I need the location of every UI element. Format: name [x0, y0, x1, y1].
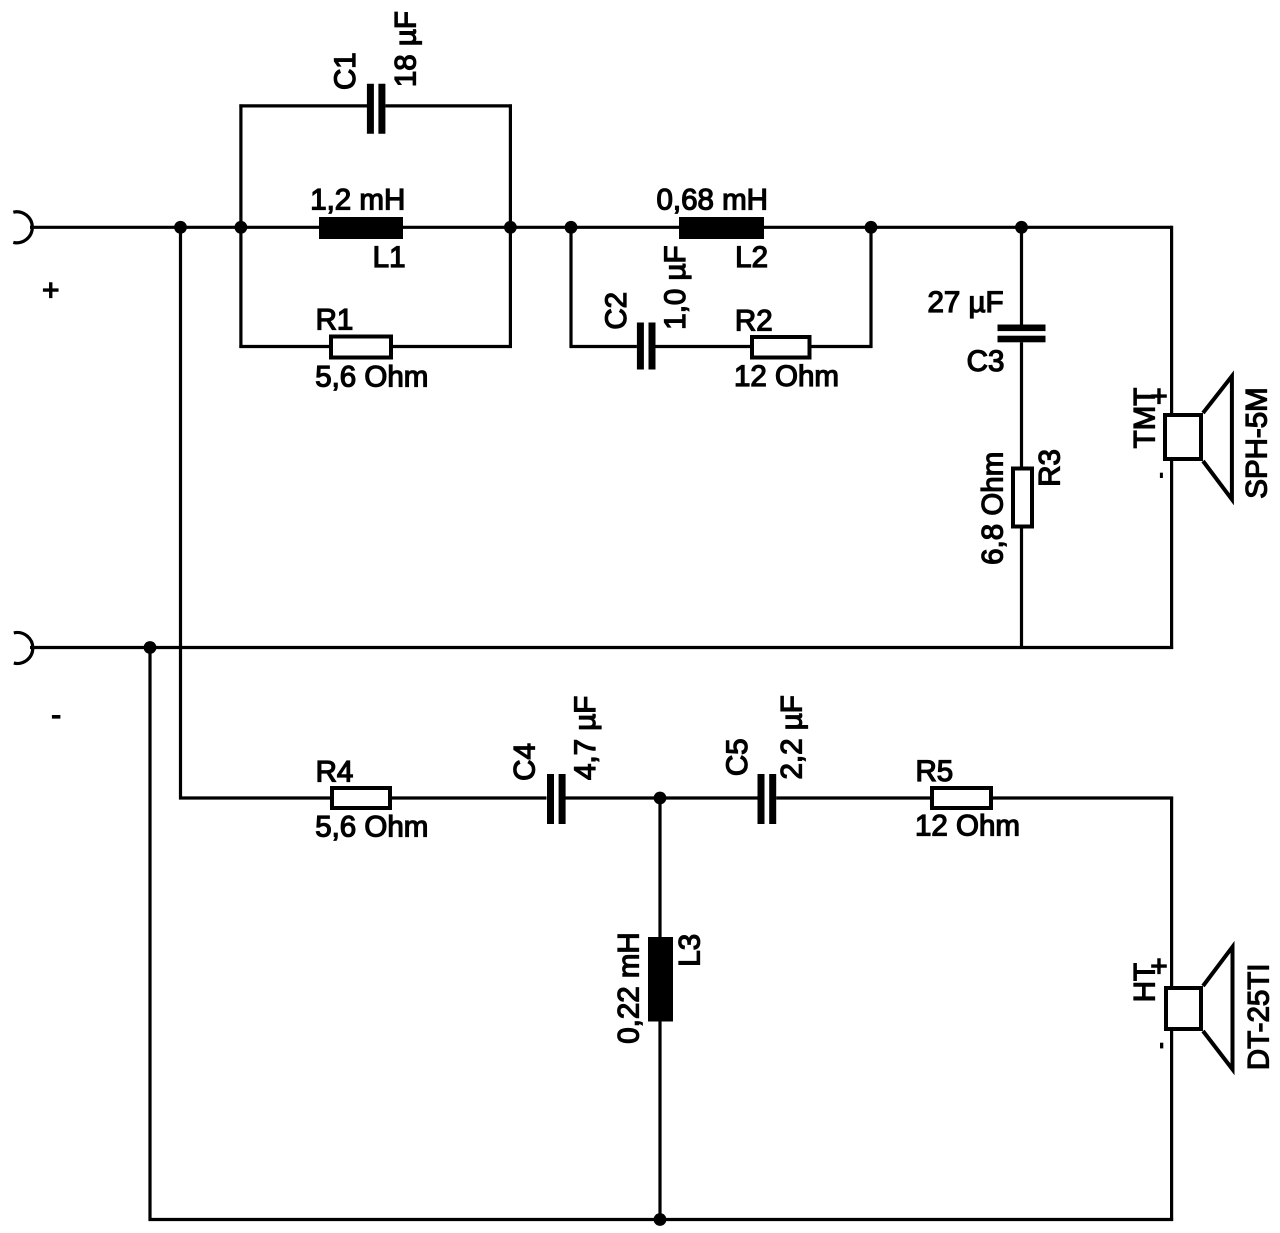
input terminal -	[14, 632, 33, 663]
svg-text:1,2 mH: 1,2 mH	[310, 184, 405, 217]
wire HT speaker right vertical upper	[1170, 797, 1173, 989]
resistor R5	[932, 788, 991, 808]
resistor R1	[331, 337, 391, 358]
svg-text:1,0 µF: 1,0 µF	[659, 245, 692, 329]
capacitor C5	[758, 774, 777, 824]
capacitor C4	[547, 774, 566, 824]
inductor L3	[648, 937, 673, 1022]
svg-text:C3: C3	[967, 345, 1005, 378]
junction node C1 group right	[504, 221, 517, 234]
wire C1 group top left segment	[239, 104, 367, 107]
wire C1 group left vertical	[239, 104, 242, 348]
label HT minus	[1160, 1043, 1163, 1049]
junction node C3 branch top	[1015, 221, 1028, 234]
svg-text:-: -	[51, 698, 61, 731]
capacitor C1	[367, 84, 386, 134]
wire TMT speaker right vertical lower	[1170, 459, 1173, 649]
svg-text:C2: C2	[600, 292, 633, 330]
wire bottom rail	[149, 1218, 1174, 1221]
junction node minus rail	[144, 641, 157, 654]
svg-text:0,68 mH: 0,68 mH	[657, 184, 769, 217]
wire C3 branch lower (R3 branch)	[1020, 342, 1023, 647]
junction node C1 group left	[235, 221, 248, 234]
junction node C2 group left	[565, 221, 578, 234]
svg-text:6,8 Ohm: 6,8 Ohm	[976, 452, 1009, 565]
resistor R3	[1013, 469, 1032, 527]
svg-text:R5: R5	[916, 755, 954, 788]
svg-text:18 µF: 18 µF	[390, 11, 423, 87]
wire tweeter chain C5 to corner	[776, 796, 1173, 799]
wire minus rail	[30, 646, 1173, 649]
svg-text:R4: R4	[316, 755, 354, 788]
svg-text:+: +	[1150, 950, 1167, 983]
capacitor C2	[637, 323, 656, 370]
input terminal +	[13, 212, 32, 243]
junction node bottom rail / L3	[654, 1213, 667, 1226]
wire C2 group left vertical	[569, 227, 572, 348]
svg-text:DT-25TI: DT-25TI	[1242, 964, 1275, 1071]
svg-text:R2: R2	[735, 304, 773, 337]
speaker HT DT-25TI	[1166, 947, 1233, 1070]
wire C2 group bottom left segment	[570, 345, 637, 348]
wire C3 branch upper	[1020, 227, 1023, 324]
svg-text:L2: L2	[735, 241, 768, 274]
svg-text:+: +	[42, 274, 59, 307]
wire C1 group bottom (R1 branch)	[239, 345, 512, 348]
svg-text:R1: R1	[316, 304, 354, 337]
resistor R2	[752, 337, 810, 358]
svg-text:L3: L3	[674, 934, 707, 967]
svg-text:4,7 µF: 4,7 µF	[569, 696, 602, 780]
wire HT speaker right vertical lower	[1170, 1029, 1173, 1221]
resistor R4	[332, 788, 390, 808]
svg-text:R3: R3	[1034, 449, 1067, 487]
wire tweeter chain horizontal	[179, 796, 547, 799]
svg-text:L1: L1	[373, 241, 406, 274]
svg-text:12 Ohm: 12 Ohm	[915, 810, 1020, 843]
wire minus rail left drop	[148, 646, 151, 1221]
junction node C2 group right	[865, 221, 878, 234]
svg-text:12 Ohm: 12 Ohm	[734, 360, 839, 393]
inductor L1	[319, 217, 403, 239]
wire C2 group right vertical	[869, 227, 872, 348]
junction node tweeter chain / L3	[654, 792, 667, 805]
svg-text:0,22 mH: 0,22 mH	[613, 932, 646, 1044]
svg-text:5,6 Ohm: 5,6 Ohm	[315, 361, 428, 394]
label TMT minus	[1160, 473, 1163, 478]
wire tweeter chain between C4 and C5	[566, 796, 758, 799]
speaker TMT SPH-5M	[1165, 376, 1232, 499]
svg-text:27 µF: 27 µF	[927, 286, 1003, 319]
wire C1 group top right segment	[385, 104, 512, 107]
svg-text:C5: C5	[721, 738, 754, 776]
svg-text:5,6 Ohm: 5,6 Ohm	[315, 810, 428, 843]
svg-text:C4: C4	[508, 743, 541, 781]
wire top main (+ rail)	[30, 226, 1172, 229]
svg-text:C1: C1	[329, 52, 362, 90]
wire plus tap vertical drop	[179, 227, 182, 799]
svg-text:2,2 µF: 2,2 µF	[776, 695, 809, 779]
junction node on + rail at tap	[174, 221, 187, 234]
wire TMT speaker right vertical upper	[1170, 226, 1173, 415]
svg-text:SPH-5M: SPH-5M	[1241, 387, 1274, 498]
svg-text:+: +	[1150, 380, 1167, 413]
wire L3 shunt branch	[658, 798, 661, 1220]
capacitor C3	[998, 325, 1046, 343]
wire C2 group bottom right segment (R2 branch)	[656, 345, 873, 348]
wire C1 group right vertical	[509, 104, 512, 348]
inductor L2	[679, 217, 764, 239]
